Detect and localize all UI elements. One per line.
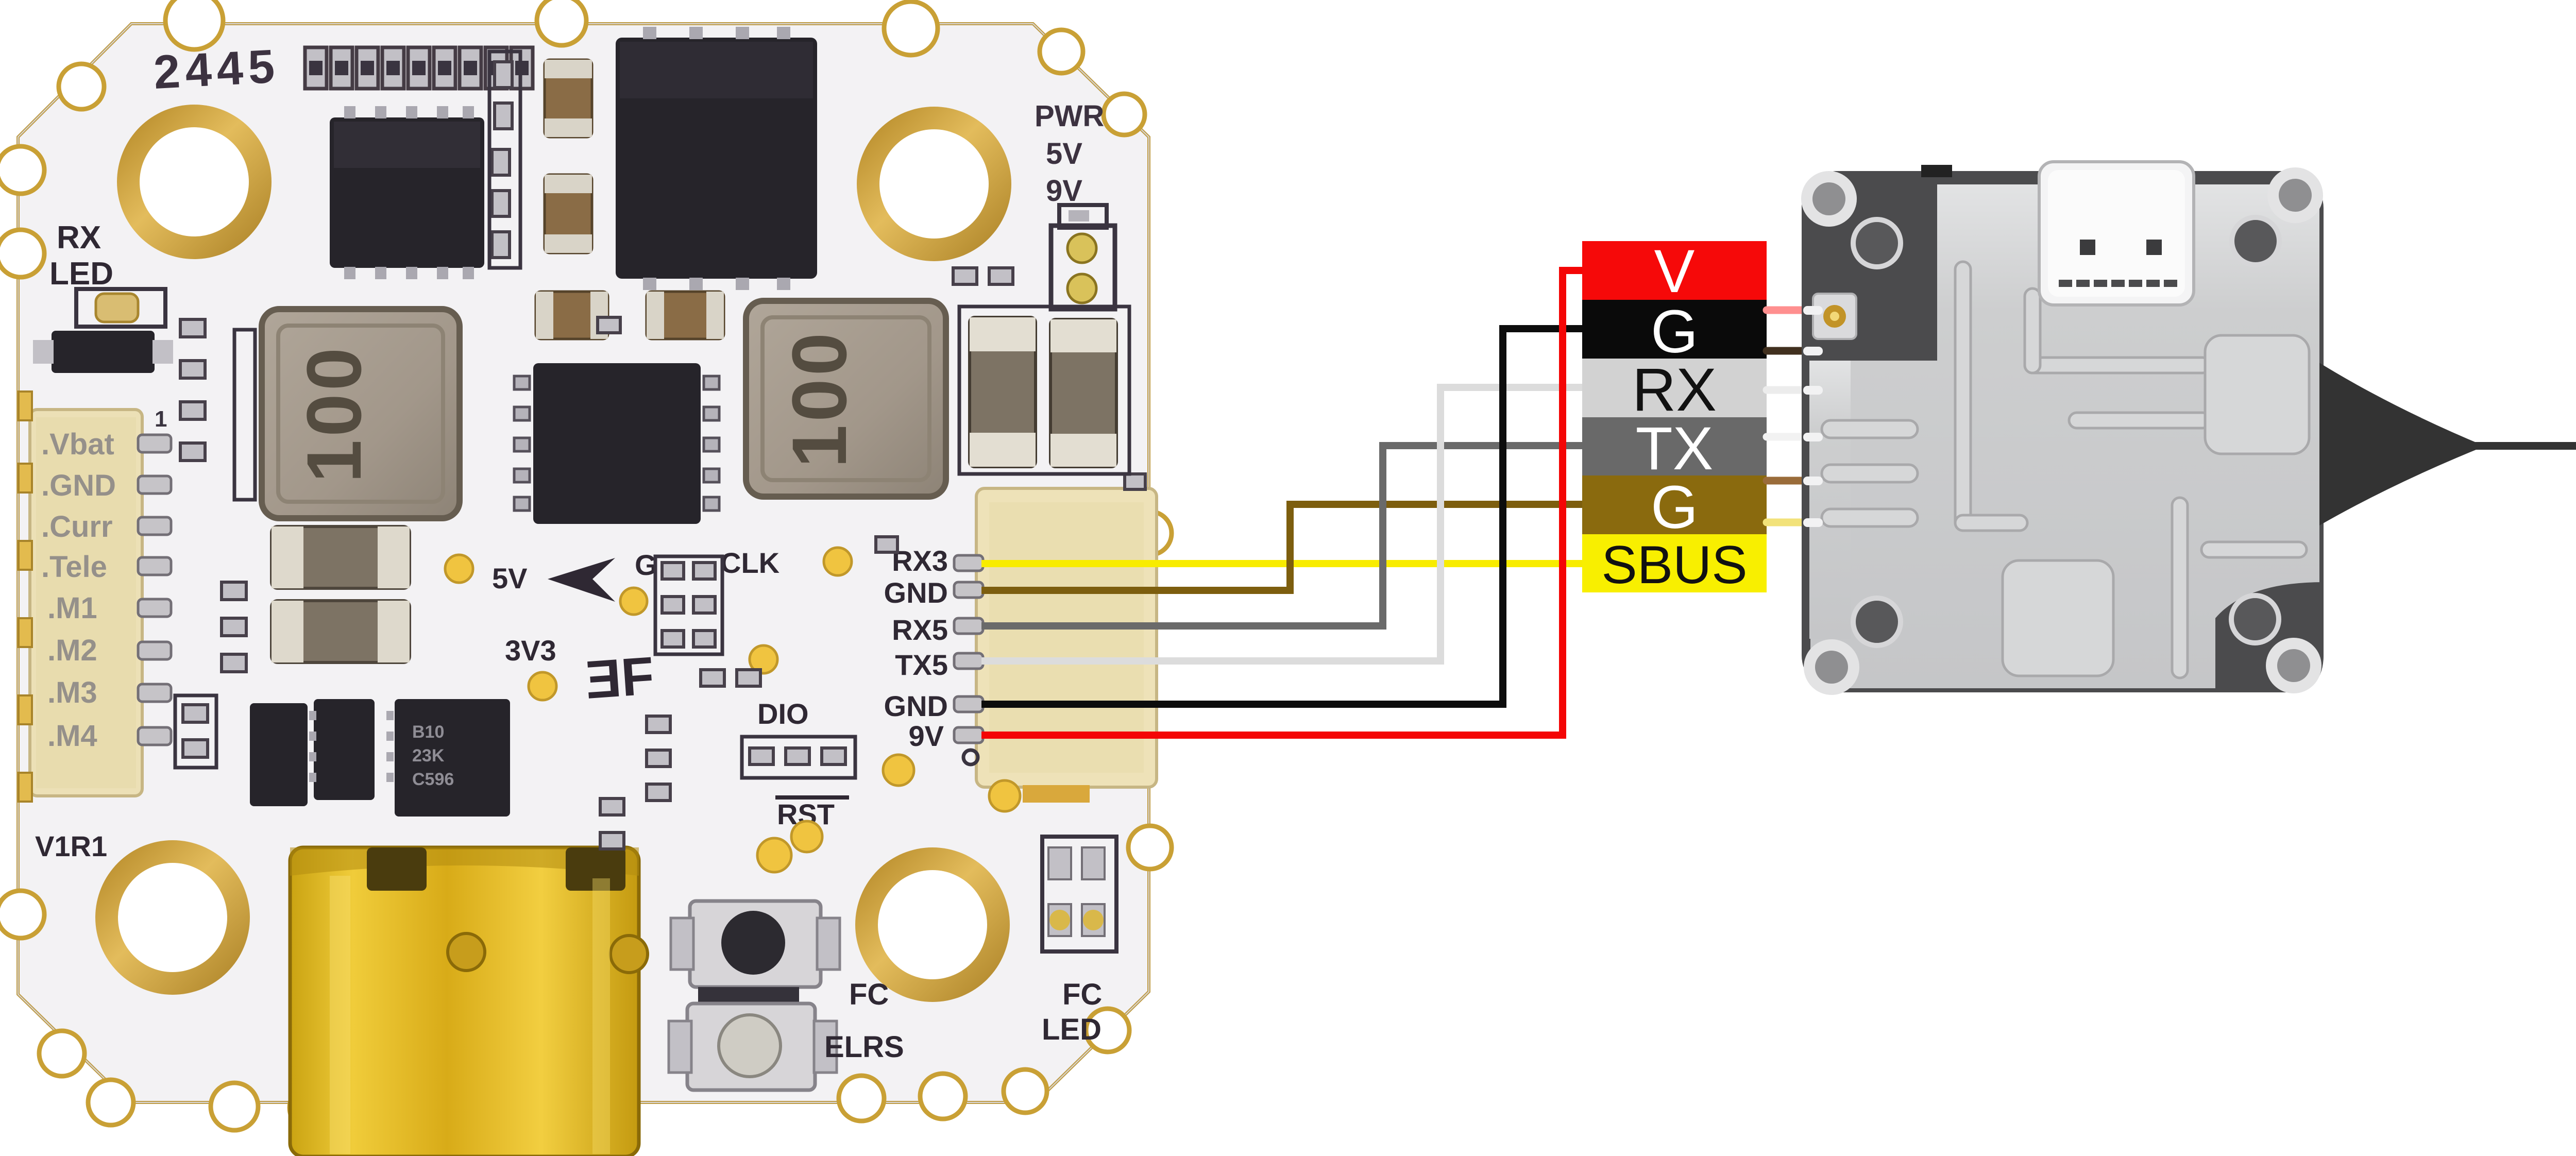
LED D3 power	[1051, 226, 1115, 309]
svg-text:9V: 9V	[1046, 174, 1082, 208]
VTX corner hole TL inner	[1853, 219, 1901, 267]
svg-text:ELRS: ELRS	[824, 1030, 904, 1064]
svg-text:9V: 9V	[909, 720, 944, 752]
svg-text:.M3: .M3	[47, 676, 97, 709]
svg-text:1: 1	[155, 406, 167, 432]
svg-text:RX5: RX5	[892, 614, 948, 646]
capacitor C1 brown below L1	[272, 526, 410, 588]
svg-text:ƎF: ƎF	[584, 646, 656, 710]
VTX corner hole BR outer	[2266, 638, 2321, 693]
label RX light gray	[1582, 359, 1767, 417]
VTX pad big top-right	[2205, 335, 2309, 454]
label TX dark gray	[1582, 417, 1767, 475]
svg-text:.M2: .M2	[47, 634, 97, 667]
VTX USB-C connector	[2039, 162, 2194, 305]
capacitor C7 big right	[970, 317, 1036, 467]
mounting hole top-right	[857, 107, 1011, 261]
svg-text:FC: FC	[1062, 978, 1102, 1011]
label V red	[1582, 241, 1767, 300]
wire gray RX5 to TX	[981, 446, 1584, 626]
wire red 9V to V	[981, 270, 1584, 735]
svg-text:.Tele: .Tele	[41, 550, 107, 584]
svg-text:.Vbat: .Vbat	[41, 428, 114, 461]
mounting hole top-left	[117, 105, 272, 259]
VTX top edge nub	[1921, 165, 1952, 177]
IC Q2 bottom row	[250, 703, 308, 806]
antenna cable	[2473, 442, 2576, 450]
VTX JST pin labels	[884, 545, 948, 752]
silkscreen outline boxes	[175, 52, 1129, 778]
LED D2 FC status	[1042, 837, 1116, 951]
capacitor C3 tall	[545, 60, 592, 137]
direction arrow	[548, 558, 615, 602]
svg-text:.Curr: .Curr	[41, 510, 113, 543]
svg-text:5V: 5V	[492, 562, 528, 594]
svg-text:TX5: TX5	[895, 649, 948, 681]
IC chip U3 top-right	[616, 38, 817, 279]
capacitor C8 big right	[1050, 319, 1116, 467]
edge scallop cutouts	[0, 0, 1172, 1131]
VTX corner hole BL inner	[1853, 598, 1901, 645]
svg-text:RX: RX	[1632, 356, 1717, 424]
svg-text:LED: LED	[1042, 1013, 1101, 1046]
USB-C connector J3	[290, 847, 639, 1156]
connector J1 motor header	[30, 410, 142, 796]
svg-text:.M1: .M1	[47, 591, 97, 625]
VTX top plate	[1810, 184, 2319, 688]
wire SBUS yellow RX3 to SBUS	[981, 560, 1584, 567]
wire brown GND to G	[981, 504, 1584, 590]
svg-text:100: 100	[291, 345, 377, 483]
svg-text:.GND: .GND	[41, 469, 116, 502]
wire black GND to G	[981, 329, 1584, 704]
gold vias	[445, 548, 1020, 872]
VTX corner hole BL outer	[1804, 639, 1859, 695]
svg-text:2445: 2445	[152, 40, 281, 99]
label SBUS yellow	[1582, 534, 1767, 592]
svg-text:.M4: .M4	[47, 719, 97, 753]
svg-text:100: 100	[776, 330, 862, 468]
svg-text:GND: GND	[884, 690, 948, 722]
flight controller board U1	[0, 0, 1172, 1156]
svg-text:G: G	[1651, 473, 1698, 541]
VTX antenna cable triangle	[2316, 361, 2485, 528]
svg-text:5V: 5V	[1046, 137, 1082, 171]
button SW1 FC	[690, 901, 821, 987]
svg-text:V: V	[1654, 237, 1695, 305]
svg-text:LED: LED	[49, 256, 113, 292]
capacitor C6	[647, 292, 724, 339]
VTX left pin pads	[1803, 306, 1823, 527]
svg-text:V1R1: V1R1	[35, 830, 107, 862]
svg-text:TX: TX	[1636, 415, 1714, 483]
svg-text:SBUS: SBUS	[1601, 535, 1747, 595]
IC Q3 bottom row	[314, 699, 375, 800]
motor header pin labels	[41, 428, 116, 753]
VTX bottom board dark	[1802, 171, 2324, 692]
LED D1 near RX LED label	[76, 289, 165, 327]
VTX trace vertical	[1822, 262, 2307, 678]
VTX trace left stubs	[1822, 420, 1918, 438]
svg-text:GND: GND	[884, 576, 948, 609]
VTX pad big bottom	[2003, 560, 2113, 676]
capacitor C4 tall	[545, 175, 592, 253]
connector J2 VTX JST	[976, 488, 1157, 787]
mounting hole bottom-left	[95, 840, 250, 995]
svg-text:CLK: CLK	[720, 547, 779, 579]
capacitor C5	[536, 292, 608, 339]
inductor L2 100	[746, 301, 946, 497]
label G brown	[1582, 475, 1767, 534]
antenna assembly	[2473, 256, 2576, 610]
label G black	[1582, 300, 1767, 359]
capacitor C2 brown below L1	[272, 601, 410, 662]
mounting hole bottom-right	[855, 847, 1010, 1002]
pin label block	[1582, 237, 1767, 595]
stub wire white2 to VTX	[1767, 433, 1809, 441]
svg-text:B10: B10	[412, 722, 444, 742]
FC board substrate	[18, 24, 1149, 1102]
IC chip U4 gyro center	[533, 363, 701, 524]
VTX trace to top-right pad	[2025, 358, 2210, 373]
top pad footprint row	[305, 47, 533, 89]
VTX corner hole TR inner	[2232, 217, 2279, 265]
stub wire pale yellow to VTX	[1767, 519, 1809, 526]
button SW2 ELRS	[687, 1004, 815, 1090]
inductor L1 100	[262, 309, 460, 518]
stub wire dark brown to VTX	[1767, 347, 1809, 355]
stub wire white to VTX	[1767, 386, 1809, 394]
svg-text:C596: C596	[412, 770, 454, 789]
VTX UFL connector	[1813, 294, 1856, 339]
wire white TX5 to RX	[981, 387, 1584, 661]
svg-text:RX: RX	[57, 220, 101, 256]
svg-text:PWR: PWR	[1035, 99, 1104, 133]
IC chip U2 top-center	[330, 117, 484, 268]
small pad clusters	[180, 62, 1145, 849]
svg-text:3V3: 3V3	[505, 634, 556, 667]
VTX corner hole TL outer	[1801, 171, 1857, 227]
svg-text:23K: 23K	[412, 746, 445, 766]
VTX dark corner bottom-right	[2215, 582, 2324, 692]
stub wire brown to VTX	[1767, 477, 1809, 485]
VTX module U6	[1801, 162, 2485, 695]
VTX corner hole BR inner	[2231, 596, 2279, 643]
IC U5 bottom row	[395, 699, 510, 817]
gold edge pads left	[19, 392, 32, 802]
svg-text:FC: FC	[849, 978, 889, 1011]
transistor Q1	[52, 331, 155, 373]
svg-text:RX3: RX3	[892, 545, 948, 577]
stub wire red to VTX	[1767, 307, 1809, 314]
svg-text:DIO: DIO	[757, 698, 809, 730]
VTX trace bottom-right	[2172, 498, 2188, 678]
VTX corner hole TR outer	[2267, 167, 2323, 223]
VTX dark corner top-left	[1802, 171, 1937, 361]
